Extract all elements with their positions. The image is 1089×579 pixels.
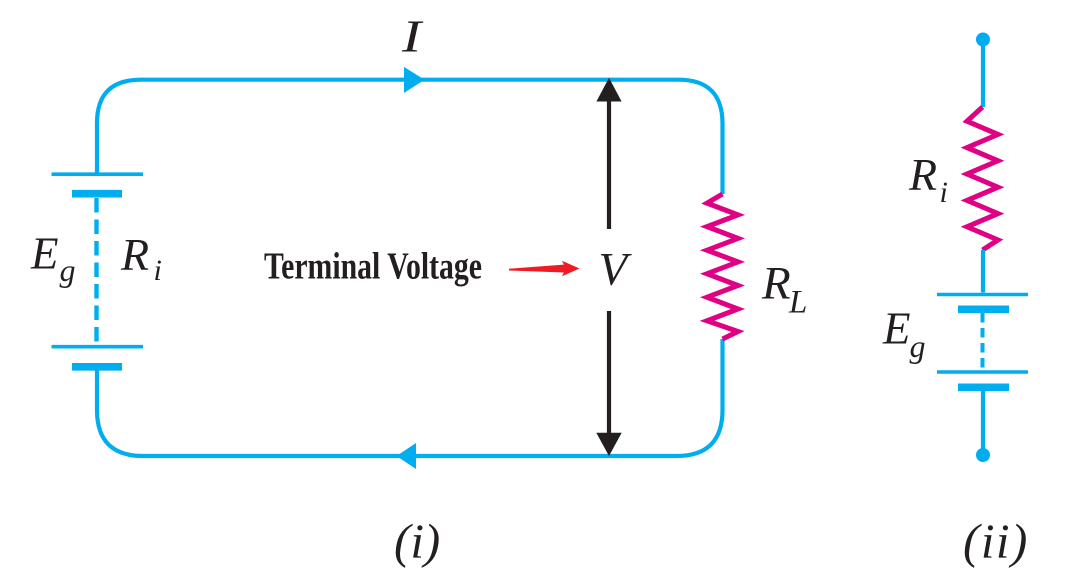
- svg-text:E: E: [882, 304, 911, 354]
- voltage arrow bottom head: [596, 433, 621, 456]
- voltage arrow top head: [596, 78, 621, 102]
- dashed internal connection of battery (circuit ii): [981, 313, 985, 370]
- svg-text:E: E: [30, 229, 59, 279]
- svg-text:i: i: [154, 254, 162, 287]
- resistor R_L zigzag: [707, 194, 738, 339]
- svg-text:Terminal Voltage: Terminal Voltage: [264, 246, 482, 288]
- svg-text:I: I: [401, 12, 424, 62]
- voltage arrow lower line: [607, 311, 611, 434]
- battery cell 1 short thick plate (circuit i): [72, 190, 122, 198]
- wire from top dot to R_i (circuit ii): [981, 40, 985, 108]
- red annotation arrow shaft: [509, 264, 567, 272]
- svg-text:R: R: [120, 229, 149, 280]
- battery cell 2 long plate (circuit ii): [937, 370, 1028, 374]
- wire from battery to bottom dot (circuit ii): [981, 391, 985, 455]
- svg-text:L: L: [788, 285, 807, 321]
- svg-text:i: i: [940, 176, 948, 209]
- wire from R_i to battery (circuit ii): [981, 250, 985, 293]
- current arrow on bottom wire (points left): [397, 443, 417, 469]
- svg-text:R: R: [761, 258, 791, 310]
- svg-text:(ii): (ii): [963, 514, 1029, 569]
- svg-text:(i): (i): [394, 514, 440, 569]
- battery cell 2 short thick plate (circuit ii): [958, 383, 1009, 391]
- battery cell 1 long plate (circuit i): [52, 172, 144, 176]
- red annotation arrow head: [562, 261, 580, 277]
- resistor R_i zigzag (circuit ii): [967, 107, 998, 250]
- dashed internal connection of battery (circuit i): [94, 198, 98, 345]
- svg-text:g: g: [60, 252, 76, 288]
- wire: circuit (i) loop upper section from battery top terminal up, across top, down to R_L top: [97, 80, 723, 194]
- battery cell 2 long plate (circuit i): [52, 345, 144, 349]
- current arrow on top wire (points right): [404, 67, 425, 93]
- svg-text:g: g: [910, 328, 926, 364]
- battery cell 1 long plate (circuit ii): [937, 293, 1028, 297]
- node dot top (circuit ii): [976, 33, 990, 47]
- battery cell 2 short thick plate (circuit i): [72, 363, 122, 371]
- node dot bottom (circuit ii): [976, 448, 990, 462]
- battery cell 1 short thick plate (circuit ii): [958, 305, 1009, 313]
- svg-text:R: R: [908, 149, 937, 200]
- wire: circuit (i) loop lower section from R_L bottom, across bottom, up to battery bottom terminal: [97, 339, 723, 456]
- voltage arrow upper line: [607, 99, 611, 229]
